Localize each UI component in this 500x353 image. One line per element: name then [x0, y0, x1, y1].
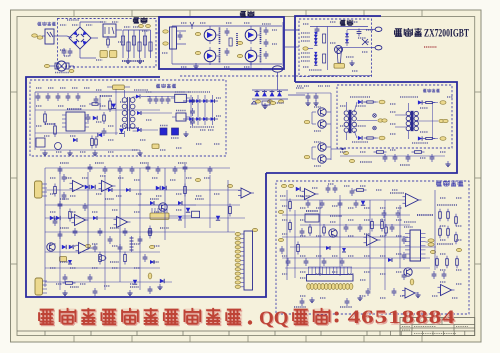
svg-text:QQ: QQ — [259, 308, 289, 329]
svg-text:ZX7200IGBT: ZX7200IGBT — [424, 26, 469, 40]
svg-text:46518884: 46518884 — [348, 308, 456, 328]
